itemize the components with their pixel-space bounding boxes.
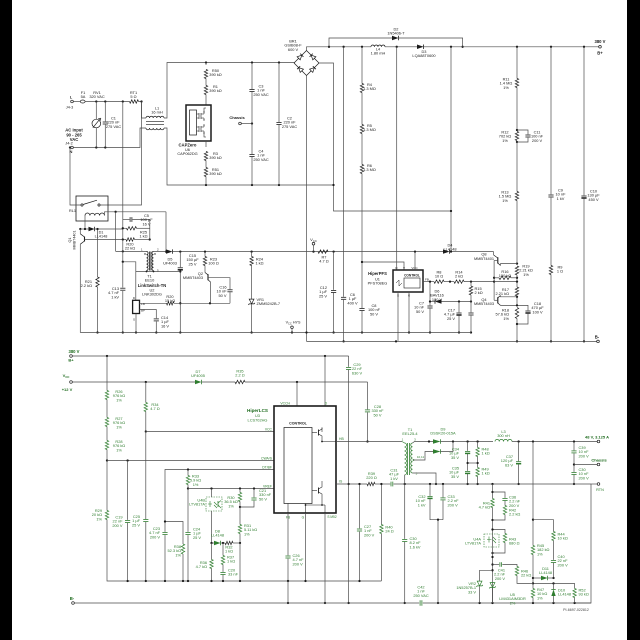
svg-text:LCS702HG: LCS702HG [248,418,268,423]
svg-text:4.7 Ω: 4.7 Ω [150,406,159,411]
svg-text:1%: 1% [503,85,509,90]
svg-text:2 kΩ: 2 kΩ [455,274,463,279]
svg-text:390 kΩ: 390 kΩ [209,88,222,93]
svg-text:24 Ω: 24 Ω [385,529,393,534]
svg-text:1.6 kV: 1.6 kV [410,544,421,549]
svg-text:G: G [302,516,305,520]
svg-text:1%: 1% [537,551,543,556]
svg-text:S M52: S M52 [327,515,336,519]
svg-text:50 V: 50 V [218,293,226,298]
svg-text:275 VAC: 275 VAC [282,124,297,129]
svg-text:1 kΩ: 1 kΩ [139,234,147,239]
svg-text:1 kV: 1 kV [390,476,398,481]
svg-text:200 V: 200 V [293,561,304,566]
svg-text:93 kΩ: 93 kΩ [579,592,589,597]
svg-text:1 kV: 1 kV [557,196,565,201]
svg-text:25 V: 25 V [193,535,201,540]
svg-text:2.2 kΩ: 2.2 kΩ [509,512,520,517]
svg-text:220 Ω: 220 Ω [366,475,377,480]
svg-text:Chassis: Chassis [591,458,607,463]
svg-text:1N5406-T: 1N5406-T [387,31,405,36]
svg-text:1%: 1% [502,138,508,143]
svg-text:Chassis: Chassis [229,115,245,120]
svg-text:390 kΩ: 390 kΩ [209,155,222,160]
svg-text:200 V: 200 V [558,562,569,567]
svg-text:1%: 1% [116,424,122,429]
svg-text:25 V: 25 V [447,316,455,321]
svg-text:FB: FB [425,277,429,281]
svg-text:25 V: 25 V [188,261,196,266]
svg-text:1 kV: 1 kV [418,502,426,507]
svg-text:200 V: 200 V [364,532,375,537]
svg-text:1%: 1% [175,552,181,557]
svg-text:1%: 1% [116,397,122,402]
svg-text:4.7 Ω: 4.7 Ω [319,259,328,264]
svg-text:1 kΩ: 1 kΩ [255,261,263,266]
svg-text:RL1: RL1 [69,209,76,213]
svg-text:B-: B- [70,596,75,601]
svg-text:200 V: 200 V [579,475,590,480]
svg-text:CONTROL: CONTROL [404,274,420,278]
svg-text:1 kV: 1 kV [111,294,119,299]
svg-text:1 kΩ: 1 kΩ [482,471,490,476]
svg-text:EE10: EE10 [145,278,155,283]
svg-text:CAP062DG: CAP062DG [177,151,197,156]
svg-text:1 kΩ: 1 kΩ [482,451,490,456]
svg-text:HiperPFS: HiperPFS [368,271,387,276]
svg-text:VAC: VAC [70,137,79,142]
svg-text:5A: 5A [81,94,86,99]
svg-text:1%: 1% [116,447,122,452]
svg-text:200 V: 200 V [579,453,590,458]
svg-text:HB: HB [339,437,344,441]
svg-text:380 V: 380 V [595,39,606,44]
svg-text:1%: 1% [96,516,102,521]
svg-text:48 V, 3.125 A: 48 V, 3.125 A [585,435,609,440]
svg-text:LL4148: LL4148 [95,235,108,239]
svg-text:200 V: 200 V [448,502,459,507]
svg-text:200 V: 200 V [495,576,506,581]
svg-text:680 Ω: 680 Ω [509,541,520,546]
svg-text:2%: 2% [510,600,516,605]
svg-text:CONTROL: CONTROL [289,422,308,426]
svg-text:1%: 1% [244,531,250,536]
svg-text:LQA88T0600: LQA88T0600 [412,53,436,58]
svg-text:380 V: 380 V [69,349,80,354]
svg-text:200 V: 200 V [150,534,161,539]
svg-text:+12 V: +12 V [62,387,73,392]
svg-text:22 kΩ: 22 kΩ [521,573,531,578]
svg-text:1.3 MΩ: 1.3 MΩ [363,127,376,132]
svg-text:33 nF: 33 nF [228,572,239,577]
svg-text:10 kΩ: 10 kΩ [558,536,568,541]
svg-text:390 kΩ: 390 kΩ [209,72,222,77]
svg-text:130 V: 130 V [432,297,443,302]
svg-text:1%: 1% [523,272,529,277]
svg-text:S: S [133,317,135,321]
svg-text:250 VAC: 250 VAC [413,593,428,598]
svg-text:10 Ω: 10 Ω [435,274,443,279]
svg-text:4.7 kΩ: 4.7 kΩ [479,505,490,510]
svg-text:16 V: 16 V [142,221,150,226]
svg-text:16 mH: 16 mH [151,110,163,115]
svg-text:1.3 MΩ: 1.3 MΩ [363,167,376,172]
svg-text:400 V: 400 V [347,300,358,305]
svg-text:V: V [403,266,405,270]
svg-text:MMBT4403: MMBT4403 [474,301,494,306]
svg-text:2.2 kΩ: 2.2 kΩ [81,283,92,288]
svg-text:UF4003: UF4003 [163,261,177,266]
svg-text:50 V: 50 V [259,496,267,501]
svg-text:VREF: VREF [263,484,272,488]
svg-text:2.2 Ω: 2.2 Ω [235,373,244,378]
svg-text:50 V: 50 V [373,412,381,417]
svg-text:1 kΩ: 1 kΩ [225,549,233,554]
svg-text:RTN: RTN [596,488,604,492]
svg-text:VCCH: VCCH [280,402,290,406]
svg-text:10,11: 10,11 [417,455,425,459]
svg-text:25 V: 25 V [319,293,327,298]
svg-text:1 kΩ: 1 kΩ [227,559,235,564]
svg-text:450 V: 450 V [588,197,599,202]
svg-text:250 VAC: 250 VAC [253,92,268,97]
svg-text:DT/BF: DT/BF [262,465,272,469]
svg-text:MMBT4403: MMBT4403 [183,275,203,280]
svg-text:1.80 mH: 1.80 mH [371,51,386,56]
svg-text:BP: BP [141,308,145,312]
svg-text:1.3 MΩ: 1.3 MΩ [363,86,376,91]
svg-text:320 VAC: 320 VAC [89,94,104,99]
svg-text:200 V: 200 V [532,138,543,143]
svg-text:50 V: 50 V [416,309,424,314]
svg-text:5 Ω: 5 Ω [130,94,136,99]
svg-text:16 V: 16 V [161,323,169,328]
svg-text:B-: B- [595,335,600,340]
svg-text:2 kΩ: 2 kΩ [475,290,483,295]
svg-text:1%: 1% [193,482,199,487]
svg-text:22 kΩ: 22 kΩ [125,246,135,251]
svg-text:FB: FB [286,516,291,520]
svg-text:PI-6697-022812: PI-6697-022812 [563,608,589,612]
svg-text:LL4148: LL4148 [211,533,224,538]
svg-text:63 V: 63 V [505,462,513,467]
svg-text:1%: 1% [502,198,508,203]
svg-text:VCC: VCC [265,427,273,431]
svg-text:PFS708EG: PFS708EG [368,281,388,286]
svg-text:25 V: 25 V [132,522,140,527]
svg-text:MMBT4401: MMBT4401 [73,230,77,249]
svg-text:250 VAC: 250 VAC [253,157,268,162]
svg-text:33 V: 33 V [468,589,476,594]
svg-text:1%: 1% [503,316,509,321]
svg-text:1%: 1% [537,595,543,600]
svg-text:CWA/S: CWA/S [261,456,273,460]
svg-text:600 V: 600 V [288,47,299,52]
svg-text:Q1: Q1 [68,238,72,243]
svg-text:390 kΩ: 390 kΩ [209,171,222,176]
svg-text:630 V: 630 V [352,370,363,375]
svg-text:LL4148: LL4148 [444,247,457,252]
svg-text:2.21 kΩ: 2.21 kΩ [495,291,509,296]
svg-text:B+: B+ [597,51,603,56]
svg-text:MMBT4401: MMBT4401 [474,256,494,261]
svg-text:100 V: 100 V [532,309,543,314]
svg-text:300 nH: 300 nH [497,433,510,438]
svg-text:LNK302DG: LNK302DG [142,292,162,297]
svg-text:LTV817A: LTV817A [465,541,481,546]
svg-text:LL4148: LL4148 [539,570,552,575]
svg-text:1 Ω: 1 Ω [557,269,563,274]
svg-text:ZMM5242B-7: ZMM5242B-7 [257,301,281,306]
svg-text:275 VAC: 275 VAC [106,124,121,129]
svg-text:200 V: 200 V [112,523,123,528]
svg-text:150 kΩ: 150 kΩ [499,273,512,278]
svg-text:EEL25-4: EEL25-4 [402,431,418,436]
svg-text:50 V: 50 V [370,311,378,316]
svg-text:B+: B+ [68,358,74,363]
svg-text:FB: FB [141,302,145,306]
svg-text:4.7 kΩ: 4.7 kΩ [196,564,207,569]
svg-text:LTV817A: LTV817A [189,502,205,507]
svg-text:LL4148: LL4148 [558,592,571,597]
svg-text:35 V: 35 V [451,455,459,460]
svg-text:DSSK20-015A: DSSK20-015A [430,431,456,436]
svg-text:100 Ω: 100 Ω [208,261,219,266]
svg-text:15 kΩ: 15 kΩ [165,298,175,303]
svg-text:35 V: 35 V [451,474,459,479]
svg-text:UF4005: UF4005 [191,373,205,378]
svg-text:1%: 1% [228,503,234,508]
svg-text:J4-3: J4-3 [66,106,73,110]
